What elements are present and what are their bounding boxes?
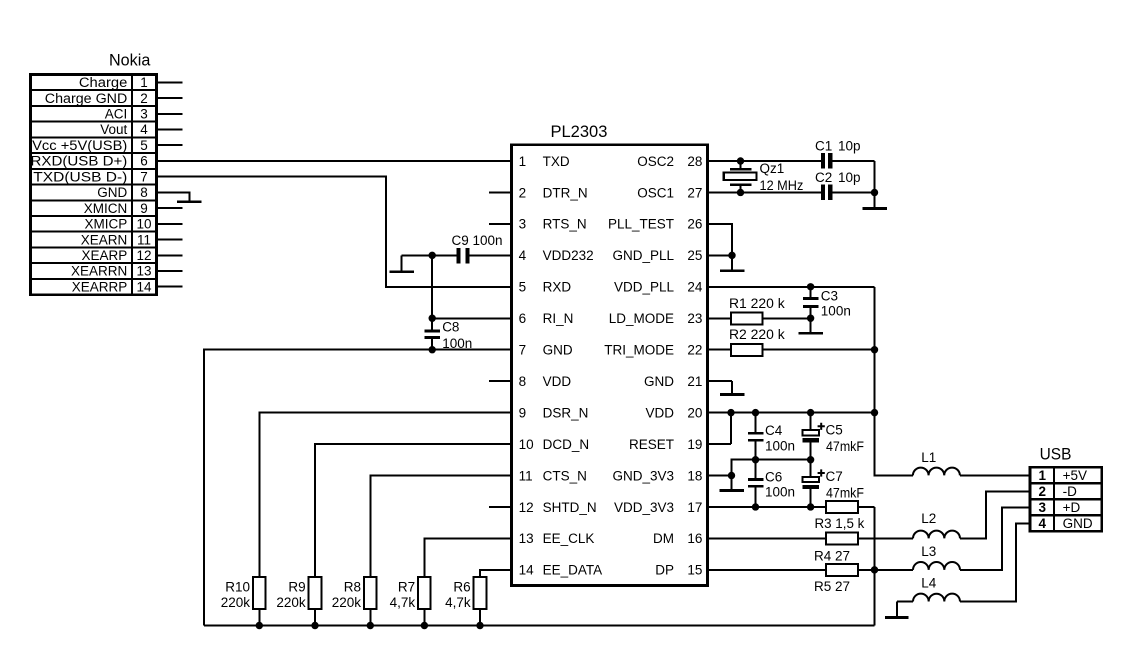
wire U1 pin 24 VDD_PLL to VDD bus xyxy=(708,286,875,288)
wire Nokia pin 3 stub xyxy=(157,113,183,115)
label Qz1 12 MHz xyxy=(760,161,804,193)
wire Nokia pin 1 stub xyxy=(157,81,183,83)
Nokia pin 12 XEARP xyxy=(82,248,152,263)
svg-text:TRI_MODE: TRI_MODE xyxy=(604,343,674,358)
svg-text:C3: C3 xyxy=(821,289,838,304)
wire C9 to ground and C8 node xyxy=(402,254,457,256)
capacitor C7 electrolytic 47mkF xyxy=(803,460,820,507)
svg-text:8: 8 xyxy=(140,185,148,200)
svg-text:VDD_PLL: VDD_PLL xyxy=(614,280,675,295)
junction C7 bottom on VDD_3V3 line xyxy=(807,503,814,510)
capacitor C3 xyxy=(803,287,819,318)
wire U1 pin 8 stub xyxy=(489,380,512,382)
svg-text:4: 4 xyxy=(140,122,148,137)
ground at U1 pin 21 xyxy=(720,381,745,396)
svg-text:6: 6 xyxy=(140,154,148,169)
wire mid 3V3 bus xyxy=(732,460,811,476)
wire U1 pin 11 CTS_N to R8 xyxy=(370,476,511,578)
svg-text:22: 22 xyxy=(687,343,702,358)
resistor R7 xyxy=(418,577,431,626)
Nokia pin 5 Vcc +5V(USB) xyxy=(32,138,148,153)
svg-text:L1: L1 xyxy=(921,450,936,465)
svg-text:Qz1: Qz1 xyxy=(760,161,785,176)
svg-text:GND_3V3: GND_3V3 xyxy=(612,468,674,483)
junction DP on right bus xyxy=(871,566,878,573)
wire Nokia pin 13 stub xyxy=(157,270,183,272)
label C2 10p xyxy=(815,170,861,185)
capacitor C1 xyxy=(821,153,833,169)
svg-text:R8: R8 xyxy=(344,579,361,594)
capacitor C8 xyxy=(425,329,440,349)
IC U1 PL2303 body xyxy=(512,145,708,586)
svg-text:220k: 220k xyxy=(221,595,251,610)
svg-text:XEARRN: XEARRN xyxy=(71,264,127,279)
svg-text:13: 13 xyxy=(519,531,534,546)
Nokia pin 1 Charge xyxy=(79,75,148,90)
svg-text:3: 3 xyxy=(519,217,527,232)
Nokia pin 14 XEARRP xyxy=(72,279,152,294)
wire Nokia pin 10 stub xyxy=(157,223,183,225)
svg-text:13: 13 xyxy=(136,264,151,279)
polarity plus for C7 xyxy=(818,469,825,476)
svg-text:R1 220 k: R1 220 k xyxy=(729,296,785,311)
wire U1 pin 20 VDD line xyxy=(708,412,875,414)
U1 pin 15 DP xyxy=(655,563,702,578)
svg-text:RXD: RXD xyxy=(543,280,572,295)
wire U1 pin 18 GND_3V3 xyxy=(708,475,732,477)
svg-text:26: 26 xyxy=(687,217,702,232)
svg-text:5: 5 xyxy=(519,280,527,295)
label L1 xyxy=(921,450,936,465)
svg-text:27: 27 xyxy=(687,185,702,200)
svg-text:C6: C6 xyxy=(765,469,782,484)
Nokia pin 2 Charge GND xyxy=(45,91,148,106)
svg-text:220k: 220k xyxy=(332,595,362,610)
resistor R4 xyxy=(826,532,913,544)
label R8 220k xyxy=(332,579,362,610)
svg-text:23: 23 xyxy=(687,311,702,326)
Nokia connector pin table xyxy=(31,75,157,295)
svg-text:DTR_N: DTR_N xyxy=(543,185,588,200)
U1 pin 27 OSC1 xyxy=(637,185,702,200)
svg-text:RXD(USB D+): RXD(USB D+) xyxy=(31,154,128,169)
junction C3 bottom / R1 xyxy=(807,315,814,322)
svg-text:OSC1: OSC1 xyxy=(637,185,674,200)
svg-text:XMICP: XMICP xyxy=(85,217,128,232)
wire net USB D- : Nokia pin 7 to U1 pin 5 RXD xyxy=(157,177,512,287)
svg-text:R7: R7 xyxy=(398,579,415,594)
U1 pin 10 DCD_N xyxy=(519,437,590,452)
U1 pin 14 EE_DATA xyxy=(519,563,603,578)
junction R8 on ground bus xyxy=(367,622,374,629)
svg-text:SHTD_N: SHTD_N xyxy=(543,500,597,515)
inductor L2 xyxy=(913,491,1030,538)
wire U1 pin 19 RESET riser xyxy=(708,413,732,444)
Nokia pin 4 Vout xyxy=(100,122,148,137)
svg-text:47mkF: 47mkF xyxy=(826,439,864,454)
svg-text:XEARRP: XEARRP xyxy=(72,279,128,294)
USB connector header label xyxy=(1040,446,1072,464)
svg-text:L3: L3 xyxy=(921,544,936,559)
wire U1 pin 10 DCD_N to R9 xyxy=(315,444,512,577)
Nokia pin 10 XMICP xyxy=(85,217,152,232)
svg-text:4,7k: 4,7k xyxy=(390,595,416,610)
svg-text:100n: 100n xyxy=(821,304,851,319)
svg-text:C2: C2 xyxy=(815,170,832,185)
resistor R1 xyxy=(708,312,811,324)
label C1 10p xyxy=(815,138,861,153)
capacitor C9 xyxy=(456,248,469,264)
svg-text:2: 2 xyxy=(1039,484,1047,499)
svg-text:DP: DP xyxy=(655,563,674,578)
wire net USB D+ : Nokia pin 6 to U1 pin 1 TXD xyxy=(157,160,512,162)
junction pin 18 node xyxy=(728,472,735,479)
svg-text:4,7k: 4,7k xyxy=(445,595,471,610)
wire U1 pin 17 VDD_3V3 line xyxy=(708,506,827,508)
junction pin25/pin26 xyxy=(728,252,735,259)
svg-text:9: 9 xyxy=(519,405,527,420)
svg-text:18: 18 xyxy=(687,468,702,483)
wire U1 pin 3 stub xyxy=(489,223,512,225)
label C4 100n xyxy=(765,423,795,453)
svg-text:R9: R9 xyxy=(288,579,305,594)
ground below C3 xyxy=(798,318,823,334)
Nokia connector header label xyxy=(109,52,151,70)
svg-text:OSC2: OSC2 xyxy=(637,154,674,169)
svg-text:8: 8 xyxy=(519,374,527,389)
svg-text:VDD: VDD xyxy=(645,405,674,420)
svg-text:1: 1 xyxy=(140,75,148,90)
svg-text:R5 27: R5 27 xyxy=(814,579,850,594)
resistor R5 xyxy=(826,564,913,576)
USB pin 2 -D xyxy=(1039,484,1078,499)
svg-text:12 MHz: 12 MHz xyxy=(760,178,804,193)
label IC U1 PL2303 xyxy=(551,123,608,141)
U1 pin 18 GND_3V3 xyxy=(612,468,702,483)
svg-text:28: 28 xyxy=(687,154,702,169)
label R1 220 k xyxy=(729,296,785,311)
label R9 220k xyxy=(276,579,306,610)
svg-text:4: 4 xyxy=(1039,516,1047,531)
svg-text:GND: GND xyxy=(1063,516,1093,531)
svg-text:USB: USB xyxy=(1040,446,1072,464)
resistor R3 xyxy=(826,501,874,513)
svg-text:12: 12 xyxy=(519,500,534,515)
capacitor C4 xyxy=(748,413,764,460)
svg-text:220k: 220k xyxy=(276,595,306,610)
Nokia pin 13 XEARRN xyxy=(71,264,151,279)
U1 pin 21 GND xyxy=(644,374,702,389)
wire U1 pin 14 EE_DATA to R6 xyxy=(480,570,512,577)
svg-text:C7: C7 xyxy=(826,469,843,484)
junction crystal top on OSC2 xyxy=(737,157,744,164)
svg-text:CTS_N: CTS_N xyxy=(543,468,587,483)
U1 pin 16 DM xyxy=(653,531,702,546)
inductor L1 xyxy=(913,468,1030,476)
wire U1 pin 21 GND xyxy=(708,380,733,382)
svg-text:11: 11 xyxy=(519,468,533,483)
U1 pin 23 LD_MODE xyxy=(609,311,703,326)
ground at L4 xyxy=(885,602,909,619)
label R7 4,7k xyxy=(390,579,416,610)
wire U1 pin 2 stub xyxy=(489,191,512,193)
svg-text:DM: DM xyxy=(653,531,674,546)
ground at Nokia pin 8 xyxy=(157,192,202,203)
wire VDD bus vertical to L1 xyxy=(875,287,913,476)
label C5 47mkF xyxy=(826,422,865,454)
ground at C9 xyxy=(389,255,414,273)
junction C8 top on U1 pin 6 RI_N line xyxy=(429,315,436,322)
svg-text:17: 17 xyxy=(687,500,702,515)
wire U1 pin 15 DP xyxy=(708,569,827,571)
U1 pin 4 VDD232 xyxy=(519,248,594,263)
label C7 47mkF xyxy=(826,469,865,501)
wire Nokia pin 11 stub xyxy=(157,239,183,241)
U1 pin 3 RTS_N xyxy=(519,217,587,232)
svg-text:C1: C1 xyxy=(815,138,832,153)
Nokia pin 8 GND xyxy=(97,185,147,200)
svg-text:100n: 100n xyxy=(765,484,795,499)
U1 pin 13 EE_CLK xyxy=(519,531,595,546)
svg-text:Vout: Vout xyxy=(100,122,127,137)
svg-text:Charge GND: Charge GND xyxy=(45,91,128,106)
svg-text:ACI: ACI xyxy=(105,107,128,122)
wire Nokia pin 14 stub xyxy=(157,286,183,288)
U1 pin 17 VDD_3V3 xyxy=(614,500,702,515)
wire U1 pin 13 EE_CLK to R7 xyxy=(424,538,511,577)
junction C4 top on VDD line xyxy=(752,409,759,416)
junction C2 right on OSC1 xyxy=(871,189,878,196)
USB pin 3 +D xyxy=(1039,500,1081,515)
svg-text:-D: -D xyxy=(1063,484,1077,499)
svg-text:10: 10 xyxy=(519,437,534,452)
wire U1 pin 28 OSC2 line (with C1 gap) xyxy=(708,160,875,162)
Nokia pin 3 ACI xyxy=(105,107,148,122)
svg-text:20: 20 xyxy=(687,405,702,420)
wire bottom ground bus xyxy=(204,625,875,627)
resistor R9 xyxy=(309,577,322,626)
U1 pin 28 OSC2 xyxy=(637,154,702,169)
ground at GND_PLL xyxy=(720,255,745,272)
USB pin 4 GND xyxy=(1039,516,1093,531)
label R10 220k xyxy=(221,579,251,610)
svg-text:GND: GND xyxy=(97,185,127,200)
resistor R2 xyxy=(708,344,875,356)
wire Nokia pin 9 stub xyxy=(157,207,183,209)
ground at crystal caps xyxy=(862,192,887,209)
svg-text:EE_DATA: EE_DATA xyxy=(543,563,603,578)
svg-text:LD_MODE: LD_MODE xyxy=(609,311,674,326)
Nokia pin 6 RXD(USB D+) xyxy=(31,154,148,169)
svg-text:16: 16 xyxy=(687,531,702,546)
svg-text:10p: 10p xyxy=(838,138,861,153)
junction crystal bottom on OSC1 xyxy=(737,189,744,196)
junction C8 bottom on U1 pin 7 GND line xyxy=(429,346,436,353)
svg-text:GND: GND xyxy=(543,343,573,358)
svg-text:R10: R10 xyxy=(225,579,250,594)
U1 pin 2 DTR_N xyxy=(519,185,588,200)
svg-text:3: 3 xyxy=(1039,500,1047,515)
svg-text:VDD: VDD xyxy=(543,374,572,389)
svg-text:21: 21 xyxy=(687,374,702,389)
label C8 100n xyxy=(442,320,472,351)
svg-text:100n: 100n xyxy=(765,438,795,453)
capacitor C6 xyxy=(748,460,764,507)
svg-text:RI_N: RI_N xyxy=(543,311,574,326)
svg-text:VDD_3V3: VDD_3V3 xyxy=(614,500,674,515)
label R6 4,7k xyxy=(445,579,471,610)
wire U1 pin 7 GND to bottom ground bus xyxy=(204,350,512,626)
polarity plus for C5 xyxy=(818,423,825,430)
wire U1 pin 4 VDD232 to C9 xyxy=(470,254,512,256)
junction node C9 / C8 riser xyxy=(429,252,436,259)
wire U1 pin 27 OSC1 line (with C2 gap) xyxy=(708,191,875,193)
U1 pin 6 RI_N xyxy=(519,311,574,326)
svg-text:TXD(USB D-): TXD(USB D-) xyxy=(33,169,127,184)
capacitor C2 xyxy=(821,184,833,200)
wire U1 pin 6 RI_N to C8 xyxy=(432,317,511,319)
svg-text:RTS_N: RTS_N xyxy=(543,217,587,232)
svg-text:19: 19 xyxy=(687,437,702,452)
junction C5 top on VDD line xyxy=(807,409,814,416)
svg-text:2: 2 xyxy=(519,185,527,200)
svg-text:7: 7 xyxy=(140,169,148,184)
label L2 xyxy=(921,511,936,526)
svg-text:+D: +D xyxy=(1063,500,1081,515)
Nokia pin 9 XMICN xyxy=(84,201,148,216)
junction C3 top on VDD_PLL xyxy=(807,283,814,290)
svg-text:R2 220 k: R2 220 k xyxy=(729,327,785,342)
junction VDD bus on VDD line xyxy=(871,409,878,416)
U1 pin 12 SHTD_N xyxy=(519,500,597,515)
inductor L4 xyxy=(897,523,1030,601)
svg-text:6: 6 xyxy=(519,311,527,326)
svg-text:10p: 10p xyxy=(838,170,861,185)
svg-text:TXD: TXD xyxy=(543,154,570,169)
resistor R10 xyxy=(253,577,266,626)
svg-text:GND_PLL: GND_PLL xyxy=(612,248,674,263)
svg-text:Nokia: Nokia xyxy=(109,52,151,70)
junction R7 on ground bus xyxy=(421,622,428,629)
U1 pin 8 VDD xyxy=(519,374,572,389)
svg-text:GND: GND xyxy=(644,374,674,389)
Nokia pin 11 XEARN xyxy=(81,232,151,247)
capacitor C5 electrolytic 47mkF xyxy=(803,413,820,460)
svg-text:12: 12 xyxy=(136,248,151,263)
U1 pin 24 VDD_PLL xyxy=(614,280,703,295)
junction R6 on ground bus xyxy=(476,622,483,629)
U1 pin 7 GND xyxy=(519,343,573,358)
svg-text:R6: R6 xyxy=(453,579,470,594)
label C3 100n xyxy=(821,289,851,319)
U1 pin 19 RESET xyxy=(629,437,702,452)
svg-text:XEARN: XEARN xyxy=(81,232,128,247)
svg-text:Charge: Charge xyxy=(79,75,127,90)
svg-text:9: 9 xyxy=(140,201,148,216)
label C9 100n xyxy=(452,233,503,248)
svg-text:XEARP: XEARP xyxy=(82,248,128,263)
svg-text:L4: L4 xyxy=(921,576,937,591)
svg-text:C5: C5 xyxy=(826,422,843,437)
svg-text:2: 2 xyxy=(140,91,148,106)
label L3 xyxy=(921,544,936,559)
svg-text:3: 3 xyxy=(140,107,148,122)
U1 pin 22 TRI_MODE xyxy=(604,343,702,358)
crystal Qz1 xyxy=(724,161,757,192)
svg-text:L2: L2 xyxy=(921,511,936,526)
label R4 27 xyxy=(814,549,850,564)
svg-text:24: 24 xyxy=(687,280,703,295)
wire Nokia pin 12 stub xyxy=(157,254,183,256)
svg-text:C9: C9 xyxy=(452,233,469,248)
wire U1 pin 12 stub xyxy=(489,506,512,508)
U1 pin 11 CTS_N xyxy=(519,468,587,483)
svg-text:11: 11 xyxy=(137,232,151,247)
wire U1 pin 16 DM xyxy=(708,537,827,539)
wire Nokia pin 4 stub xyxy=(157,129,183,131)
svg-text:7: 7 xyxy=(519,343,527,358)
svg-text:XMICN: XMICN xyxy=(84,201,128,216)
svg-text:14: 14 xyxy=(519,563,535,578)
svg-text:DCD_N: DCD_N xyxy=(543,437,590,452)
svg-text:1: 1 xyxy=(1039,468,1047,483)
svg-text:C4: C4 xyxy=(765,423,783,438)
svg-text:RESET: RESET xyxy=(629,437,674,452)
svg-text:VDD232: VDD232 xyxy=(543,248,594,263)
svg-text:4: 4 xyxy=(519,248,527,263)
wire R3 to DP bus vertical xyxy=(874,507,876,626)
USB pin 1 +5V xyxy=(1039,468,1087,483)
U1 pin 5 RXD xyxy=(519,280,572,295)
svg-text:15: 15 xyxy=(687,563,702,578)
svg-text:EE_CLK: EE_CLK xyxy=(543,531,595,546)
U1 pin 9 DSR_N xyxy=(519,405,589,420)
svg-text:100n: 100n xyxy=(473,233,503,248)
svg-text:1: 1 xyxy=(519,154,527,169)
junction C4 bottom on mid bus xyxy=(752,456,759,463)
svg-text:Vcc +5V(USB): Vcc +5V(USB) xyxy=(32,138,127,153)
junction RESET on VDD line xyxy=(727,409,734,416)
svg-text:PLL_TEST: PLL_TEST xyxy=(608,217,674,232)
wire Nokia pin 5 stub xyxy=(157,144,183,146)
svg-text:DSR_N: DSR_N xyxy=(543,405,589,420)
svg-text:47mkF: 47mkF xyxy=(826,486,864,501)
wire U1 pin 25 GND_PLL xyxy=(708,254,733,256)
wire U1 pin 9 DSR_N to R10 xyxy=(259,413,511,577)
U1 pin 25 GND_PLL xyxy=(612,248,702,263)
wire Nokia pin 2 stub xyxy=(157,97,183,99)
svg-text:C8: C8 xyxy=(442,320,459,335)
junction C6 bottom on VDD_3V3 line xyxy=(752,503,759,510)
svg-text:PL2303: PL2303 xyxy=(551,123,608,141)
resistor R6 xyxy=(474,577,487,626)
label R3 1,5 k xyxy=(815,516,865,531)
wire U1 pin 26 PLL_TEST xyxy=(708,224,733,255)
svg-text:5: 5 xyxy=(140,138,148,153)
svg-text:25: 25 xyxy=(687,248,702,263)
U1 pin 1 TXD xyxy=(519,154,570,169)
svg-text:R3 1,5 k: R3 1,5 k xyxy=(815,516,865,531)
wire C9 node down to C8 xyxy=(431,255,433,329)
U1 pin 20 VDD xyxy=(645,405,702,420)
junction C5 bottom on mid bus xyxy=(807,456,814,463)
svg-text:10: 10 xyxy=(136,217,151,232)
label C6 100n xyxy=(765,469,795,499)
junction R10 on ground bus xyxy=(256,622,263,629)
inductor L3 xyxy=(913,507,1030,569)
USB connector pin table xyxy=(1030,467,1102,531)
resistor R8 xyxy=(364,577,377,626)
